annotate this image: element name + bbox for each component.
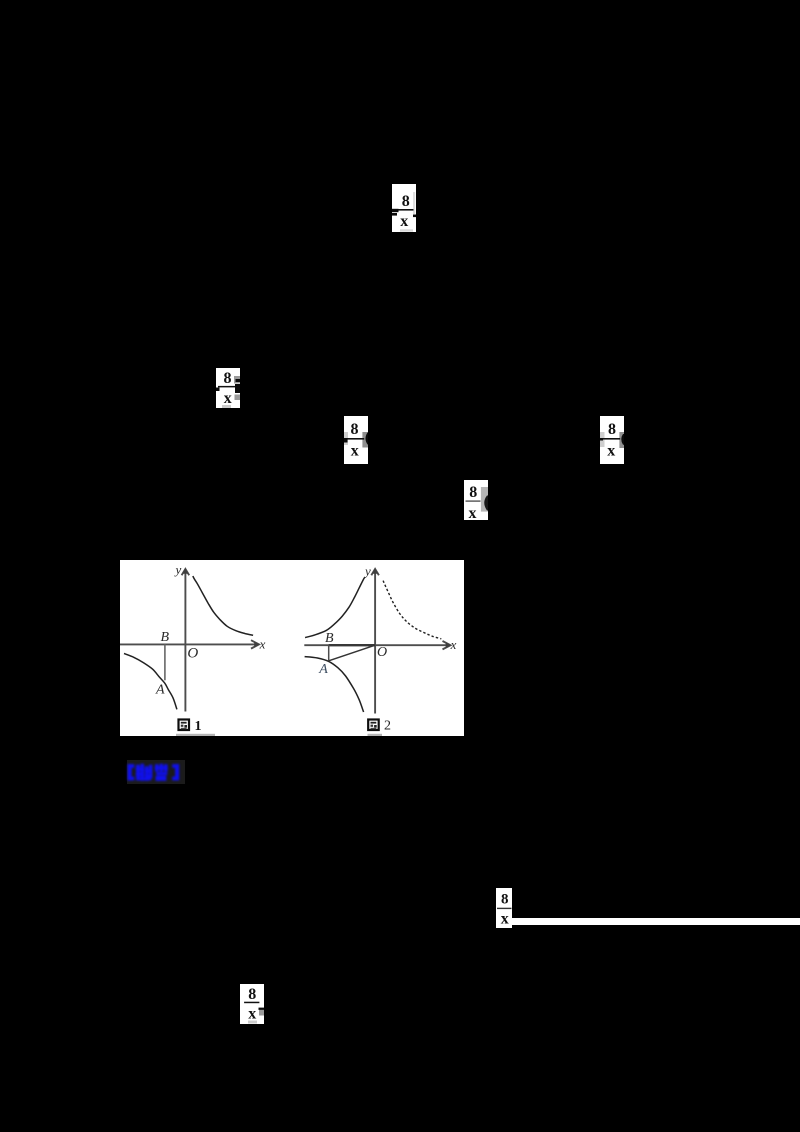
caption fig1 <box>179 719 202 734</box>
fraction F2 (8/x) <box>216 368 240 408</box>
svg-text:y: y <box>363 563 371 578</box>
Q1 hyperbola branch <box>193 576 253 635</box>
BO thick segment on axis <box>329 644 375 646</box>
Q1 branch (dashed, right) <box>383 581 441 639</box>
svg-text:1: 1 <box>195 719 202 734</box>
svg-text:8: 8 <box>224 370 232 387</box>
fraction F5 (8/x) <box>464 480 488 520</box>
svg-text:O: O <box>187 645 198 661</box>
svg-text:8: 8 <box>501 892 509 908</box>
svg-text:8: 8 <box>469 484 477 501</box>
Q3 branch (solid, lower-left) <box>305 657 364 712</box>
svg-text:x: x <box>469 505 477 520</box>
svg-text:x: x <box>501 911 509 928</box>
left bracket <box>128 764 132 780</box>
svg-text:x: x <box>450 637 457 652</box>
svg-text:8: 8 <box>248 986 256 1003</box>
svg-text:B: B <box>161 630 170 645</box>
fraction F3 (8/x) <box>344 416 368 464</box>
svg-text:x: x <box>248 1006 256 1023</box>
fraction F1 (8/x) <box>392 184 416 232</box>
fraction F7 (8/x) <box>240 984 264 1024</box>
arrow tips fig1 <box>182 568 188 574</box>
BA vertical line <box>164 644 166 680</box>
svg-text:x: x <box>259 637 266 652</box>
char 2 (da) <box>155 764 159 772</box>
y-axis <box>182 569 190 712</box>
Q3 hyperbola branch <box>124 654 177 710</box>
svg-text:A: A <box>155 682 165 697</box>
svg-text:A: A <box>318 662 328 677</box>
fraction F4 (8/x) <box>600 416 624 464</box>
svg-text:8: 8 <box>402 193 410 210</box>
x-axis <box>120 640 259 648</box>
BA vertical <box>328 645 330 661</box>
svg-text:B: B <box>325 631 334 646</box>
svg-text:O: O <box>377 645 387 660</box>
svg-text:8: 8 <box>351 421 359 438</box>
svg-text:x: x <box>607 443 615 460</box>
svg-text:x: x <box>351 443 359 460</box>
svg-text:y: y <box>174 562 182 577</box>
x-axis <box>304 641 450 649</box>
caption fig2 <box>368 718 391 733</box>
arrow tips fig2 <box>372 568 378 574</box>
white strip <box>512 918 800 926</box>
figure (two graphs) <box>120 560 464 736</box>
svg-text:2: 2 <box>384 718 391 733</box>
svg-text:x: x <box>400 213 408 230</box>
AO segment <box>329 645 375 661</box>
y-axis <box>371 569 379 714</box>
fraction F6 (8/x) <box>496 888 512 928</box>
Q2 branch (solid, upper-left) <box>305 577 365 638</box>
svg-text:8: 8 <box>608 421 616 438</box>
right bracket <box>175 764 179 780</box>
char 1 (jie) <box>136 765 140 781</box>
svg-text:x: x <box>224 390 232 407</box>
blue heading 【解答】 <box>127 760 185 784</box>
